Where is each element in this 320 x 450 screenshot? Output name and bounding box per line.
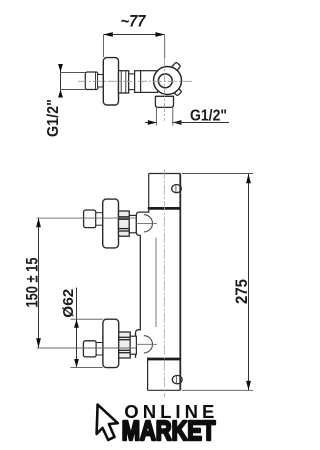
svg-text:G1/2": G1/2"	[190, 108, 227, 125]
valve tab lower right	[171, 85, 181, 96]
dimension 275 ext top	[182, 173, 253, 175]
G1/2 outlet ext line right	[172, 108, 174, 126]
svg-text:150 ± 15: 150 ± 15	[22, 258, 41, 308]
dimension O62 line	[76, 288, 78, 368]
150±15 top arrow	[36, 218, 41, 227]
G1/2 left ext bottom	[60, 89, 85, 91]
upper escutcheon	[103, 199, 119, 248]
G1/2 left ext top	[60, 72, 85, 74]
nut facet line 2	[125, 71, 127, 93]
dimension ~77 left arrow	[103, 32, 113, 37]
O62 top arrow	[74, 319, 79, 327]
upper boss and wide section left profile	[136, 210, 149, 358]
upper screw	[172, 185, 182, 193]
lower screw	[172, 375, 182, 383]
union nut (top view)	[119, 71, 129, 93]
275 top arrow	[246, 174, 251, 183]
lower elbow centerline	[136, 343, 157, 345]
G1/2 outlet dim left segment	[145, 122, 156, 124]
upper taper nipple	[96, 213, 103, 226]
G1/2 outlet leader line	[173, 122, 229, 124]
upper elbow arc	[144, 215, 153, 232]
body neck (top view)	[141, 71, 158, 93]
upper elbow centerline	[136, 222, 157, 224]
column bottom edge	[148, 389, 181, 391]
supply pipe end (top view)	[85, 72, 98, 90]
extension line left (wall face)	[103, 35, 105, 57]
lower nut facet lines	[119, 336, 131, 338]
internal bore line	[155, 238, 157, 328]
svg-text:275: 275	[232, 279, 251, 304]
upper union nut	[119, 211, 130, 236]
dimension 275 ext bottom	[182, 389, 253, 391]
top view vertical centerline	[164, 58, 166, 121]
G1/2 left top arrow	[58, 64, 63, 72]
upper inlet centerline	[37, 217, 136, 219]
upper sleeve	[129, 215, 136, 232]
150±15 bottom arrow	[36, 338, 41, 347]
locknut (top view)	[135, 71, 141, 93]
dimension 275 line	[248, 174, 250, 390]
pipe inner edge	[95, 72, 97, 89]
svg-text:~77: ~77	[121, 12, 147, 30]
dimension ~77 line	[104, 34, 165, 36]
dimension G1/2 left: dim line	[60, 66, 62, 96]
top shelf thick line	[148, 207, 181, 210]
valve body circle	[154, 67, 182, 95]
lower taper nipple	[96, 343, 103, 356]
G1/2 outlet right arrow	[173, 120, 182, 125]
lower supply pipe end	[83, 341, 96, 357]
dimension ~77 right arrow	[155, 32, 165, 37]
upper supply pipe end	[84, 210, 96, 228]
svg-text:MARKET: MARKET	[122, 415, 216, 446]
column left edge top section	[148, 174, 150, 209]
outlet boss (top view)	[155, 96, 173, 107]
G1/2 outlet left arrow	[148, 120, 157, 125]
valve inner circle	[158, 74, 172, 88]
svg-text:G1/2": G1/2"	[45, 99, 62, 137]
O62 bottom arrow	[74, 359, 79, 367]
dimension 150±15 line	[38, 218, 40, 348]
O62 ext top	[71, 318, 103, 320]
column top edge	[149, 173, 181, 175]
bottom shelf thick line	[147, 358, 181, 361]
G1/2 left bottom arrow	[58, 90, 63, 98]
cursor icon	[97, 405, 118, 440]
upper screw slot	[175, 185, 177, 193]
lower sleeve	[130, 336, 136, 354]
lower elbow arc	[144, 336, 153, 353]
lower screw slot	[175, 376, 177, 384]
escutcheon (top view)	[103, 58, 118, 105]
lower escutcheon	[103, 319, 119, 367]
upper nut facet lines	[119, 216, 130, 218]
lower inlet centerline	[37, 347, 136, 349]
main vertical centerline	[164, 169, 166, 397]
O62 ext bottom	[71, 366, 103, 368]
lower union nut	[119, 332, 131, 358]
column right edge	[179, 174, 181, 391]
sleeve (top view)	[129, 74, 135, 90]
275 bottom arrow	[246, 381, 251, 390]
taper nipple (top view)	[98, 75, 104, 88]
valve tab upper right	[170, 62, 180, 73]
G1/2 outlet ext line left	[155, 108, 157, 126]
extension line right (valve centerline)	[164, 35, 166, 58]
column left edge bottom section	[147, 359, 149, 390]
top view horizontal centerline	[78, 80, 193, 82]
svg-text:Ø62: Ø62	[60, 289, 77, 318]
nut facet line 1	[120, 71, 122, 93]
